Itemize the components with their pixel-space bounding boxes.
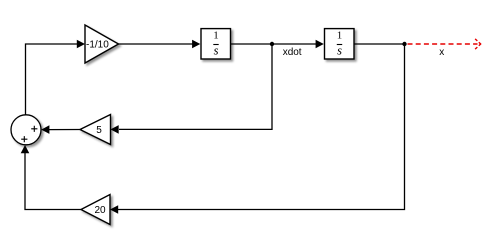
arrowhead into integrator 2 (316, 40, 324, 49)
wire: integrator 2 output to node x (355, 43, 405, 45)
arrowhead into gain -1/10 (77, 40, 85, 49)
integrator U1 (1/s) (201, 29, 231, 59)
arrowhead into sum bottom port (21, 145, 30, 153)
gain block 20 (81, 195, 110, 225)
integrator U2 (1/s) (325, 29, 355, 59)
node xdot junction (270, 42, 274, 46)
svg-text:1: 1 (337, 29, 343, 41)
signal x red dashed arrow (408, 38, 482, 49)
svg-text:x: x (439, 47, 444, 58)
wire: xdot branch down and left to gain 5 (119, 44, 272, 129)
gain block 5 (80, 115, 111, 145)
arrowhead into gain 20 (110, 205, 118, 214)
svg-text:5: 5 (96, 125, 102, 136)
wire: integrator 1 output to integrator 2 (231, 43, 319, 45)
wire: sum output up-left then to gain -1/10 (26, 44, 79, 115)
svg-text:1: 1 (213, 29, 219, 41)
wire: gain 5 output to sum right port (48, 129, 80, 131)
wire: gain -1/10 output to integrator 1 (119, 43, 195, 45)
sum junction S1 (11, 115, 41, 145)
arrowhead into gain 5 (111, 125, 119, 134)
svg-text:20: 20 (94, 205, 106, 216)
svg-text:s: s (337, 44, 342, 58)
node x junction (402, 42, 406, 46)
svg-text:xdot: xdot (283, 47, 302, 58)
svg-text:-1/10: -1/10 (86, 40, 109, 51)
wire: gain 20 output left then up to sum bottom port (25, 150, 81, 210)
arrowhead into sum right port (41, 125, 49, 134)
arrowhead into integrator 1 (192, 40, 200, 49)
svg-text:s: s (214, 44, 219, 58)
wire: node x down and left to gain 20 (118, 44, 405, 210)
gain block -1/10 (85, 25, 119, 63)
